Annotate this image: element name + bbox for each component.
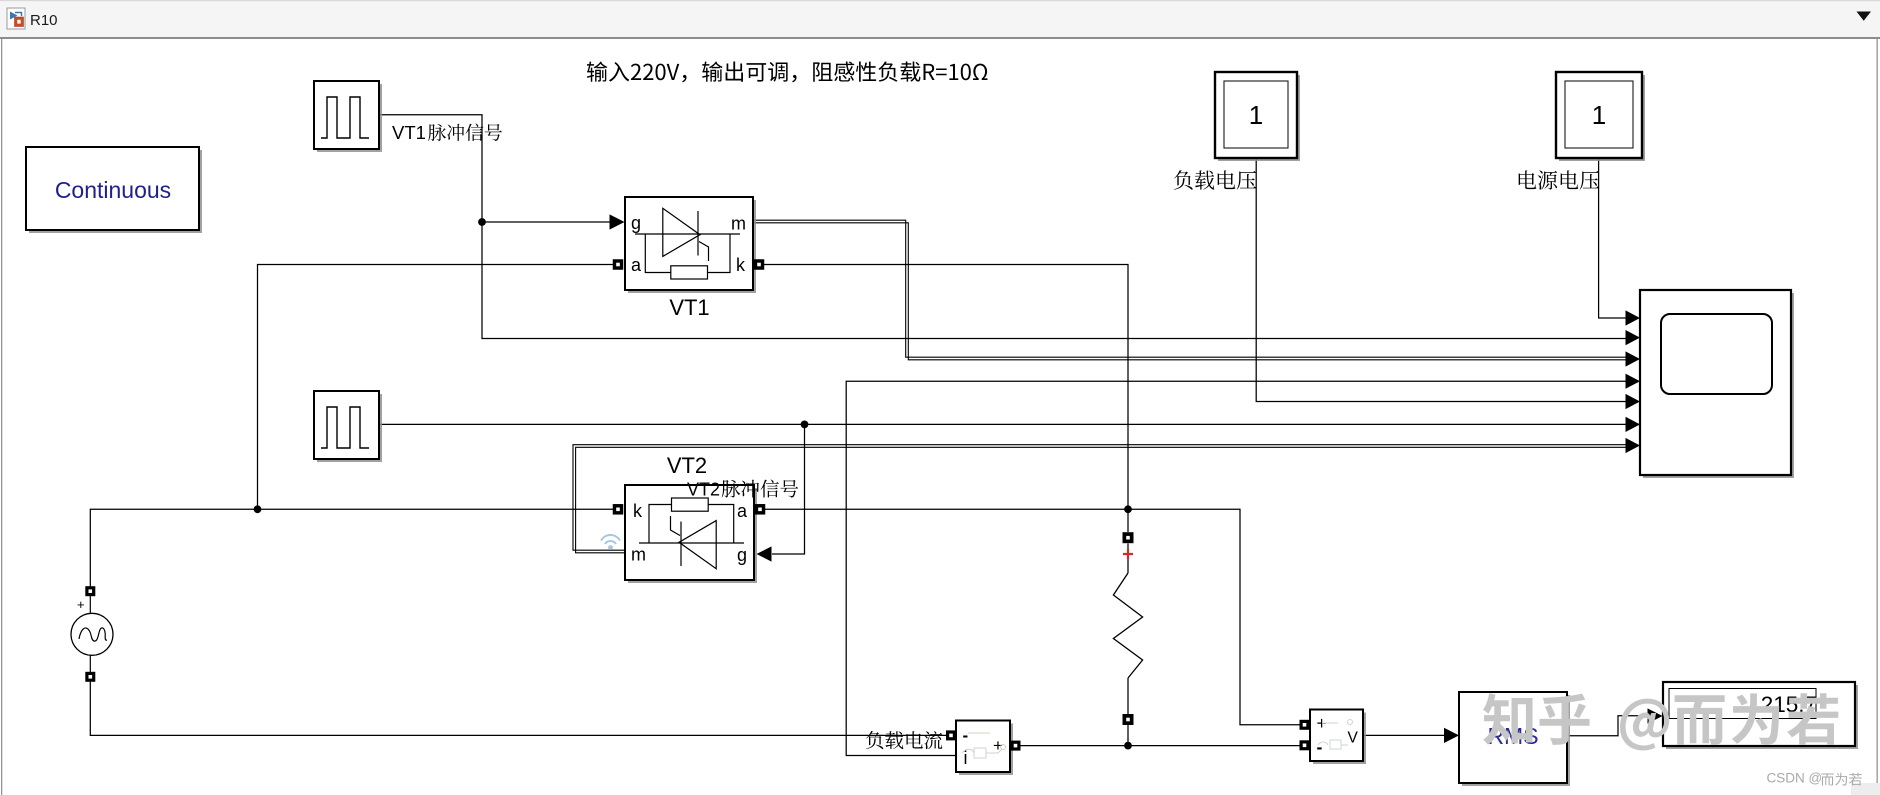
svg-text:CSDN @: CSDN @ [1767,771,1823,786]
svg-text:VT2: VT2 [667,453,707,478]
svg-text:1: 1 [1592,100,1606,130]
svg-text:+: + [77,597,85,612]
svg-text:-: - [1317,737,1323,757]
svg-text:1: 1 [1249,100,1263,130]
svg-text:VT1: VT1 [392,122,426,143]
svg-text:m: m [631,545,646,565]
svg-text:a: a [737,501,748,521]
svg-text:Continuous: Continuous [55,177,171,203]
svg-text:k: k [736,255,746,275]
svg-text:g: g [631,213,641,233]
svg-text:V: V [1348,730,1359,747]
svg-text:R10: R10 [30,12,58,29]
svg-text:g: g [737,545,747,565]
svg-text:VT1: VT1 [669,295,709,320]
svg-text:k: k [633,501,643,521]
svg-text:VT2: VT2 [687,480,720,500]
svg-text:-: - [963,726,969,745]
svg-text:m: m [731,214,746,234]
svg-text:a: a [631,255,642,275]
